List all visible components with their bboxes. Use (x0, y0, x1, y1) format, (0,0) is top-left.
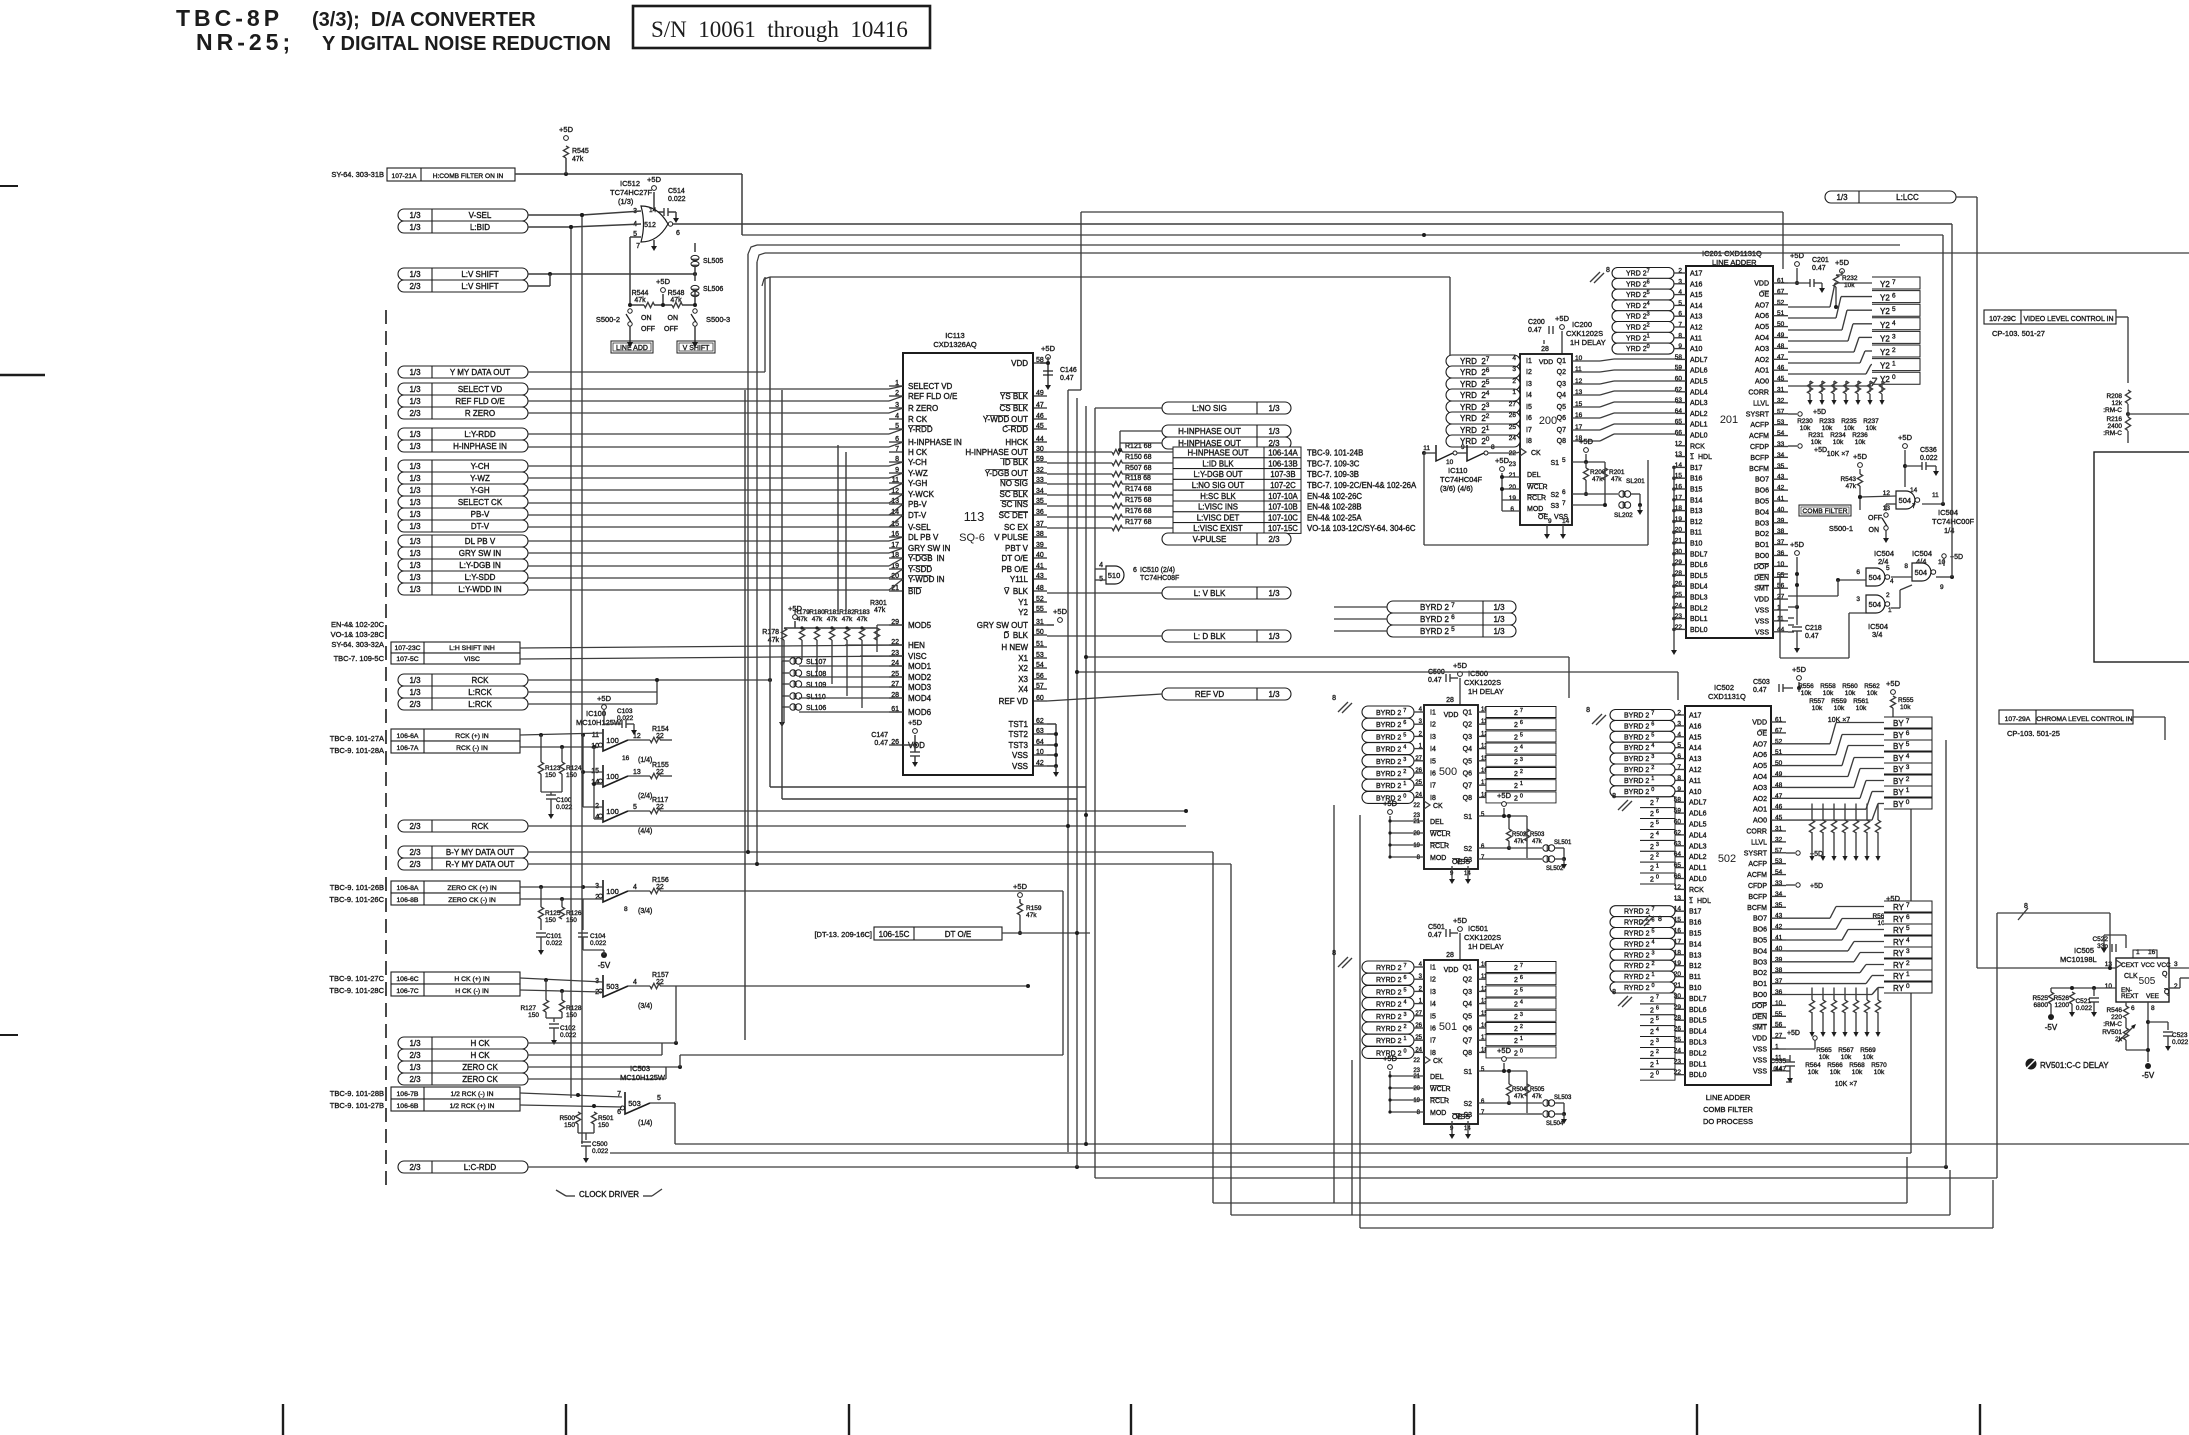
svg-text:TBC-8P: TBC-8P (176, 5, 283, 31)
svg-text:23: 23 (1509, 461, 1517, 468)
capacitor C103 0.022 (621, 720, 623, 728)
svg-text:LINE ADDER: LINE ADDER (1712, 258, 1757, 267)
svg-text:AO5: AO5 (1755, 324, 1769, 331)
svg-text:1/3: 1/3 (1268, 427, 1280, 436)
svg-text:VO-1& 103-28C: VO-1& 103-28C (331, 630, 385, 639)
svg-text:16: 16 (622, 755, 630, 762)
delay SL202 (1572, 504, 1605, 506)
svg-text:106-7C: 106-7C (396, 988, 418, 995)
svg-text:500: 500 (1439, 766, 1457, 778)
svg-text:PB O/E: PB O/E (1001, 565, 1028, 574)
svg-text:Q7: Q7 (1557, 427, 1566, 434)
svg-text:0.022: 0.022 (617, 715, 634, 722)
label box COMB FILTER (1799, 505, 1851, 516)
svg-text:L: V BLK: L: V BLK (1194, 589, 1226, 598)
svg-text:R503: R503 (1530, 832, 1545, 838)
svg-text:Q2: Q2 (1463, 722, 1472, 729)
wire comb filter drop (741, 174, 743, 235)
buffer IC503 3/4 (603, 975, 628, 997)
svg-text:R237: R237 (1863, 418, 1879, 425)
svg-text:SELECT CK: SELECT CK (458, 498, 503, 507)
svg-text:YRD 27: YRD 27 (1626, 269, 1650, 278)
svg-text:504: 504 (1869, 600, 1882, 609)
wire gate pin5 stub (630, 236, 641, 238)
svg-text:1H DELAY: 1H DELAY (1468, 942, 1504, 951)
svg-text:ON: ON (668, 315, 679, 322)
svg-text:CK: CK (1433, 803, 1443, 810)
svg-text:B-Y MY DATA OUT: B-Y MY DATA OUT (446, 848, 514, 857)
svg-text:AO7: AO7 (1753, 741, 1767, 748)
svg-text:BYRD 2 1: BYRD 2 1 (1376, 781, 1406, 790)
svg-text:107-29A: 107-29A (2005, 716, 2031, 723)
resistor R525 6800 (2048, 992, 2053, 1004)
wire L:C-RDD long (528, 1166, 1946, 1168)
svg-text:6: 6 (1133, 567, 1137, 574)
svg-text:S500-2: S500-2 (596, 315, 620, 324)
vertical trunk x1086 (1085, 406, 1087, 1144)
wire Q outputs IC505 (2169, 967, 2189, 969)
svg-text:L:VISC EXIST: L:VISC EXIST (1193, 524, 1243, 533)
svg-text:IC113: IC113 (945, 331, 964, 340)
svg-text:503: 503 (606, 982, 619, 991)
svg-text:106-6A: 106-6A (397, 733, 419, 740)
svg-text:OUT: OUT (1011, 415, 1028, 424)
bus width mark 8 IC502 ADL (1618, 800, 1628, 810)
wire EN network (2051, 987, 2116, 989)
svg-text:R-Y MY DATA OUT: R-Y MY DATA OUT (446, 860, 515, 869)
svg-text:10k: 10k (1841, 1054, 1852, 1061)
svg-text:B17: B17 (1689, 909, 1702, 916)
bottom register tick 2 (565, 1404, 567, 1435)
svg-text:A15: A15 (1690, 292, 1703, 299)
svg-text:28: 28 (1446, 952, 1454, 959)
svg-text:A15: A15 (1689, 734, 1702, 741)
svg-text:R150 68: R150 68 (1125, 454, 1152, 461)
svg-text:0.022: 0.022 (1920, 455, 1938, 462)
svg-text:5: 5 (1562, 457, 1566, 464)
svg-text:+5D: +5D (597, 694, 612, 703)
connector pill SELECT CK 1/3 (398, 496, 528, 508)
svg-text:1/3: 1/3 (409, 498, 421, 507)
svg-text:150: 150 (598, 1122, 609, 1129)
svg-text:AO4: AO4 (1753, 774, 1767, 781)
svg-text:EN-4& 102-26C: EN-4& 102-26C (1307, 492, 1362, 501)
wire L:LCC (1956, 196, 1977, 198)
svg-text:(3/4): (3/4) (638, 1003, 652, 1010)
svg-text:L:Y-SDD: L:Y-SDD (465, 573, 496, 582)
svg-text:1/3: 1/3 (1836, 193, 1848, 202)
svg-text:EN-4& 102-20C: EN-4& 102-20C (331, 620, 385, 629)
svg-text:I7: I7 (1430, 783, 1436, 790)
svg-text:MOD: MOD (1430, 1110, 1446, 1117)
svg-text:B12: B12 (1690, 519, 1703, 526)
svg-text:504: 504 (1899, 496, 1912, 505)
svg-text:7: 7 (1912, 503, 1916, 510)
dashed bus spine left (385, 310, 387, 1185)
svg-text:ZERO CK (-) IN: ZERO CK (-) IN (448, 897, 496, 904)
svg-text:ACFP: ACFP (1748, 861, 1767, 868)
svg-text:Y11L: Y11L (1010, 575, 1029, 584)
svg-text:502: 502 (1718, 853, 1736, 865)
svg-text:SC INS: SC INS (1001, 500, 1028, 509)
svg-text:R566: R566 (1827, 1062, 1843, 1069)
svg-text:100: 100 (606, 736, 619, 745)
svg-text:VCC: VCC (2157, 962, 2171, 969)
svg-text:IC501: IC501 (1468, 924, 1488, 933)
wire buffer fanout (582, 735, 584, 772)
svg-text:RCK: RCK (472, 822, 490, 831)
svg-text:YRD 20: YRD 20 (1626, 344, 1650, 353)
svg-text:R175 68: R175 68 (1125, 497, 1152, 504)
svg-text:R559: R559 (1831, 698, 1847, 705)
resistor R546 220 RM-C (2125, 1002, 2127, 1006)
svg-text:ADL4: ADL4 (1689, 832, 1707, 839)
svg-text:B10: B10 (1689, 985, 1702, 992)
svg-text:150: 150 (545, 772, 556, 779)
svg-text:220: 220 (2111, 1014, 2122, 1021)
svg-text:CK: CK (1433, 1058, 1443, 1065)
svg-text:TBC-9. 101-28B: TBC-9. 101-28B (330, 1089, 384, 1098)
wire L:BID to gate pin4 (528, 226, 571, 228)
svg-text:14: 14 (649, 207, 657, 214)
svg-text:6: 6 (617, 1109, 621, 1116)
bottom register tick 1 (282, 1404, 284, 1435)
svg-text:1/3: 1/3 (409, 537, 421, 546)
svg-text:CFDP: CFDP (1748, 883, 1767, 890)
svg-text:R176 68: R176 68 (1125, 508, 1152, 515)
svg-text:A10: A10 (1690, 346, 1703, 353)
svg-text:MOD3: MOD3 (908, 683, 932, 692)
connector pill DL PB V 1/3 (398, 535, 528, 547)
svg-text:RCLR: RCLR (1430, 843, 1449, 850)
svg-text:2: 2 (2174, 983, 2178, 990)
wire resistor row (630, 304, 644, 306)
resistor array R564-R570 pulldowns (1811, 988, 1813, 1001)
line adder IC201 CXD1131Q outline (1686, 266, 1773, 638)
svg-text:CXD1131Q: CXD1131Q (1708, 692, 1746, 701)
svg-text:1/3: 1/3 (409, 385, 421, 394)
svg-text:A14: A14 (1689, 745, 1702, 752)
svg-text:6: 6 (1856, 569, 1860, 576)
svg-text:MOD1: MOD1 (908, 662, 932, 671)
svg-text:B12: B12 (1689, 963, 1702, 970)
svg-text:S1: S1 (1463, 814, 1472, 821)
svg-text:YRD 26: YRD 26 (1460, 367, 1490, 377)
svg-text:R526: R526 (2053, 995, 2069, 1002)
wire RCK 2/3 line (528, 825, 1186, 827)
connector pill L:BID 1/3 (398, 221, 528, 233)
svg-text:26: 26 (1415, 768, 1422, 774)
svg-text:R126: R126 (566, 910, 582, 917)
svg-text:S1: S1 (1550, 460, 1559, 467)
svg-text:BYRD 2 6: BYRD 2 6 (1624, 721, 1654, 730)
svg-text:MC10H125W: MC10H125W (620, 1073, 666, 1082)
svg-text:LLVL: LLVL (1751, 839, 1767, 846)
svg-text:ADL1: ADL1 (1690, 422, 1708, 429)
wire H-INPHASE pills (1120, 430, 1162, 432)
svg-text:V-SEL: V-SEL (469, 211, 492, 220)
svg-text:504: 504 (1915, 568, 1928, 577)
svg-text:5: 5 (657, 1095, 661, 1102)
svg-text:(1/4): (1/4) (638, 757, 652, 764)
svg-text:Q5: Q5 (1557, 404, 1566, 411)
pill V-PULSE 2/3 (1162, 533, 1291, 545)
svg-text:I7: I7 (1430, 1038, 1436, 1045)
svg-text:6: 6 (1510, 506, 1514, 513)
svg-text:ADL3: ADL3 (1689, 843, 1707, 850)
svg-text:TC74HC04F: TC74HC04F (1440, 475, 1483, 484)
svg-text:R127: R127 (520, 1005, 536, 1012)
svg-text:R179: R179 (794, 609, 810, 616)
input box 106-7B 1/2 RCK (-) IN (391, 1087, 520, 1099)
svg-text:S500-3: S500-3 (706, 315, 730, 324)
svg-text:1/3: 1/3 (409, 442, 421, 451)
svg-text:BO6: BO6 (1753, 927, 1767, 934)
svg-text:IC110: IC110 (1448, 466, 1467, 475)
wire RCK(-) to buffers (520, 746, 603, 748)
svg-text:R569: R569 (1860, 1047, 1876, 1054)
svg-text:AO2: AO2 (1753, 796, 1767, 803)
svg-text:27: 27 (1415, 1011, 1422, 1017)
svg-text:BDL7: BDL7 (1689, 996, 1707, 1003)
svg-text:505: 505 (2139, 976, 2156, 987)
svg-text:1/3: 1/3 (409, 561, 421, 570)
svg-text:CXK1202S: CXK1202S (1464, 933, 1501, 942)
input box 106-7C H CK (-) IN (391, 984, 520, 996)
bus wire y245 (757, 244, 1900, 246)
svg-text:0.022: 0.022 (2076, 1005, 2093, 1012)
svg-text:TC74HC27F: TC74HC27F (610, 188, 653, 197)
BY output boxes (1884, 717, 1932, 728)
svg-text:NO SIG: NO SIG (1000, 479, 1028, 488)
wire SL506 to resistor row (694, 291, 696, 305)
wire H CK(+) (520, 978, 603, 982)
svg-text:YRD 23: YRD 23 (1460, 402, 1490, 412)
svg-text:S3: S3 (1550, 503, 1559, 510)
svg-text:1/3: 1/3 (409, 510, 421, 519)
svg-text:WCLR: WCLR (1430, 831, 1451, 838)
svg-text:RYRD 2 2: RYRD 2 2 (1376, 1024, 1407, 1033)
connector pill Y MY DATA OUT 1/3 (398, 366, 528, 378)
svg-text:8: 8 (1491, 444, 1495, 451)
svg-text:Y-RDD: Y-RDD (908, 425, 933, 434)
delay IC501 outline (1424, 960, 1478, 1124)
svg-text:28: 28 (1541, 346, 1549, 353)
bottom register tick 7 (1979, 1404, 1981, 1435)
svg-text:DOP: DOP (1752, 1003, 1768, 1010)
svg-text:I8: I8 (1526, 438, 1532, 445)
IC502 VSS ties (1786, 1059, 1790, 1061)
svg-text:BO5: BO5 (1755, 499, 1769, 506)
svg-text:100: 100 (606, 887, 619, 896)
RYRD pills into IC502 (1610, 906, 1675, 917)
svg-text:Q1: Q1 (1557, 358, 1566, 365)
svg-text:R121 68: R121 68 (1125, 443, 1152, 450)
svg-text:R557: R557 (1809, 698, 1825, 705)
svg-text:L:VISC INS: L:VISC INS (1198, 503, 1238, 512)
svg-text:2: 2 (1886, 592, 1890, 599)
svg-text:+5D: +5D (1453, 916, 1468, 925)
svg-text:AO3: AO3 (1755, 346, 1769, 353)
svg-text:R118 68: R118 68 (1125, 475, 1151, 482)
svg-text:MOD: MOD (1527, 506, 1543, 513)
output signal table 106/107 (1173, 447, 1301, 458)
svg-text:1/3: 1/3 (409, 223, 421, 232)
svg-text:Q4: Q4 (1463, 1001, 1472, 1008)
svg-text:4: 4 (1512, 355, 1516, 362)
svg-text:MOD6: MOD6 (908, 708, 932, 717)
svg-text:150: 150 (528, 1012, 539, 1019)
svg-text:150: 150 (564, 1122, 575, 1129)
comb logic wires (1838, 579, 1866, 581)
svg-text:TBC-7. 109-2C/EN-4& 102-26A: TBC-7. 109-2C/EN-4& 102-26A (1307, 481, 1417, 490)
svg-text:2/3: 2/3 (409, 848, 421, 857)
svg-text:BCFM: BCFM (1749, 466, 1769, 473)
svg-text:510: 510 (1108, 571, 1121, 580)
svg-text:Q6: Q6 (1557, 415, 1566, 422)
svg-text:AO0: AO0 (1755, 379, 1769, 386)
svg-text:RCLR: RCLR (1527, 495, 1546, 502)
svg-text:L:NO SIG OUT: L:NO SIG OUT (1192, 481, 1245, 490)
svg-text:1/3: 1/3 (409, 573, 421, 582)
clock loop wire (1423, 453, 1425, 545)
svg-text:S1: S1 (1463, 1069, 1472, 1076)
svg-text:H:COMB FILTER ON IN: H:COMB FILTER ON IN (433, 173, 504, 180)
svg-text:VDD: VDD (1754, 597, 1769, 604)
svg-text:B17: B17 (1690, 465, 1703, 472)
bus width mark 8 IC502 B (1640, 915, 1650, 925)
bus width mark 8 BYRD (1338, 702, 1348, 712)
svg-text:A11: A11 (1689, 778, 1701, 785)
svg-text:(4/4): (4/4) (638, 828, 652, 835)
svg-text:26: 26 (1509, 412, 1517, 419)
YRD input pills IC200 (1446, 355, 1520, 367)
svg-text:Q4: Q4 (1557, 392, 1566, 399)
resistor R126 150 (561, 899, 563, 907)
connector pill L:Y-SDD 1/3 (398, 571, 528, 583)
svg-text:DO PROCESS: DO PROCESS (1703, 1117, 1753, 1126)
svg-text:C501: C501 (1428, 924, 1445, 931)
wire minus5 join (583, 949, 604, 951)
svg-text:R216: R216 (2106, 416, 2122, 423)
svg-text:+5D: +5D (1792, 665, 1807, 674)
svg-text:RYRD 2 7: RYRD 2 7 (1624, 907, 1655, 916)
svg-text:R233: R233 (1819, 418, 1835, 425)
svg-text:RYRD 2 4: RYRD 2 4 (1376, 1000, 1407, 1009)
svg-text:C500: C500 (592, 1141, 608, 1148)
svg-text:ADL0: ADL0 (1690, 433, 1708, 440)
svg-text:(3/4): (3/4) (638, 908, 652, 915)
RYRD input pills (1362, 961, 1414, 973)
svg-text:H CK: H CK (470, 1039, 490, 1048)
svg-text:COMB FILTER: COMB FILTER (1703, 1105, 1753, 1114)
svg-text:RCK: RCK (1690, 443, 1705, 450)
svg-text:BO7: BO7 (1753, 916, 1767, 923)
svg-text:+5D: +5D (1383, 1054, 1398, 1063)
svg-text:VSS: VSS (1755, 618, 1769, 625)
svg-text:10k: 10k (1844, 425, 1855, 432)
svg-text:H-INPHASE OUT: H-INPHASE OUT (1187, 449, 1248, 458)
connector pill L:C-RDD 2/3 (398, 1161, 528, 1173)
svg-text:BYRD 2 7: BYRD 2 7 (1624, 711, 1654, 720)
wire H:COMB FILTER ON IN to bus (515, 173, 742, 175)
svg-text:C-RDD: C-RDD (1002, 425, 1028, 434)
svg-text:RYRD 2 4: RYRD 2 4 (1624, 939, 1655, 948)
svg-text:SYSRT: SYSRT (1744, 850, 1768, 857)
bottom bus y1203 (1334, 1202, 1907, 1204)
svg-text:+5D: +5D (656, 277, 671, 286)
wire B-Y MY DATA OUT (528, 851, 1213, 853)
svg-text:YS BLK: YS BLK (1000, 392, 1029, 401)
svg-text:ADL3: ADL3 (1690, 400, 1708, 407)
bus width mark 8 IC502 BDL (1618, 996, 1628, 1006)
svg-text:106-7A: 106-7A (397, 745, 419, 752)
svg-text:RCK: RCK (472, 676, 490, 685)
svg-text:106-13B: 106-13B (1268, 459, 1297, 468)
input box 106-6C H CK (+) IN (391, 972, 520, 984)
svg-text:SL201: SL201 (1626, 478, 1645, 485)
svg-text:2/3: 2/3 (409, 1163, 421, 1172)
svg-text:1/3: 1/3 (409, 430, 421, 439)
svg-text:+5D: +5D (647, 175, 662, 184)
svg-text:CP-103. 501-27: CP-103. 501-27 (1992, 329, 2045, 338)
svg-text:1/3: 1/3 (409, 270, 421, 279)
svg-text:1/3: 1/3 (409, 1039, 421, 1048)
svg-text:AO3: AO3 (1753, 785, 1767, 792)
resistor R232 10k (1833, 275, 1838, 287)
bus width mark 8 IC502 A (1592, 714, 1602, 724)
svg-text:VSS: VSS (1753, 1047, 1767, 1054)
svg-text:DEL: DEL (1527, 472, 1541, 479)
svg-text:X3: X3 (1018, 675, 1028, 684)
svg-text:BLK: BLK (1013, 631, 1029, 640)
svg-text:H-INPHASE IN: H-INPHASE IN (453, 442, 507, 451)
inverter IC110 3/6 4/6 (1436, 445, 1453, 461)
RY output boxes (1884, 901, 1932, 912)
resistor R200 47k (1583, 468, 1588, 480)
svg-text:RYRD 2 5: RYRD 2 5 (1624, 929, 1655, 938)
svg-text:L:H SHIFT INH: L:H SHIFT INH (449, 645, 495, 652)
svg-text:0.022: 0.022 (546, 940, 563, 947)
svg-text:Q: Q (2162, 971, 2168, 978)
svg-text:BYRD 2 5: BYRD 2 5 (1420, 626, 1455, 636)
connector pill H-INPHASE IN 1/3 (398, 440, 528, 452)
svg-text:0.022: 0.022 (590, 940, 607, 947)
wire RCK pills join (528, 679, 770, 681)
svg-text:19: 19 (1509, 495, 1517, 502)
svg-text:10k: 10k (1856, 705, 1867, 712)
svg-text:VDD: VDD (1752, 720, 1767, 727)
svg-text:14: 14 (1910, 487, 1918, 494)
wire IC512 output bus y224 (673, 223, 1952, 225)
wires SL to IC113 MOD pins (799, 665, 903, 667)
svg-text:BDL5: BDL5 (1690, 573, 1708, 580)
bottom register tick 6 (1696, 1404, 1698, 1435)
svg-text:+5D: +5D (559, 125, 574, 134)
svg-text:+5D: +5D (1555, 314, 1570, 323)
svg-text:C522: C522 (2092, 936, 2108, 943)
svg-text:REF FLD O/E: REF FLD O/E (455, 397, 504, 406)
svg-text:C521: C521 (2075, 998, 2091, 1005)
svg-text:H CK: H CK (470, 1051, 490, 1060)
wires BO to RY (1786, 917, 1830, 919)
svg-text:MC10198L: MC10198L (2060, 955, 2097, 964)
svg-text:S/N 10061 through 10416: S/N 10061 through 10416 (651, 17, 908, 42)
svg-text:10k: 10k (1801, 690, 1812, 697)
svg-text:AO6: AO6 (1753, 752, 1767, 759)
svg-text:IN: IN (937, 554, 945, 563)
wire bundle pills to IC113 (528, 388, 889, 390)
